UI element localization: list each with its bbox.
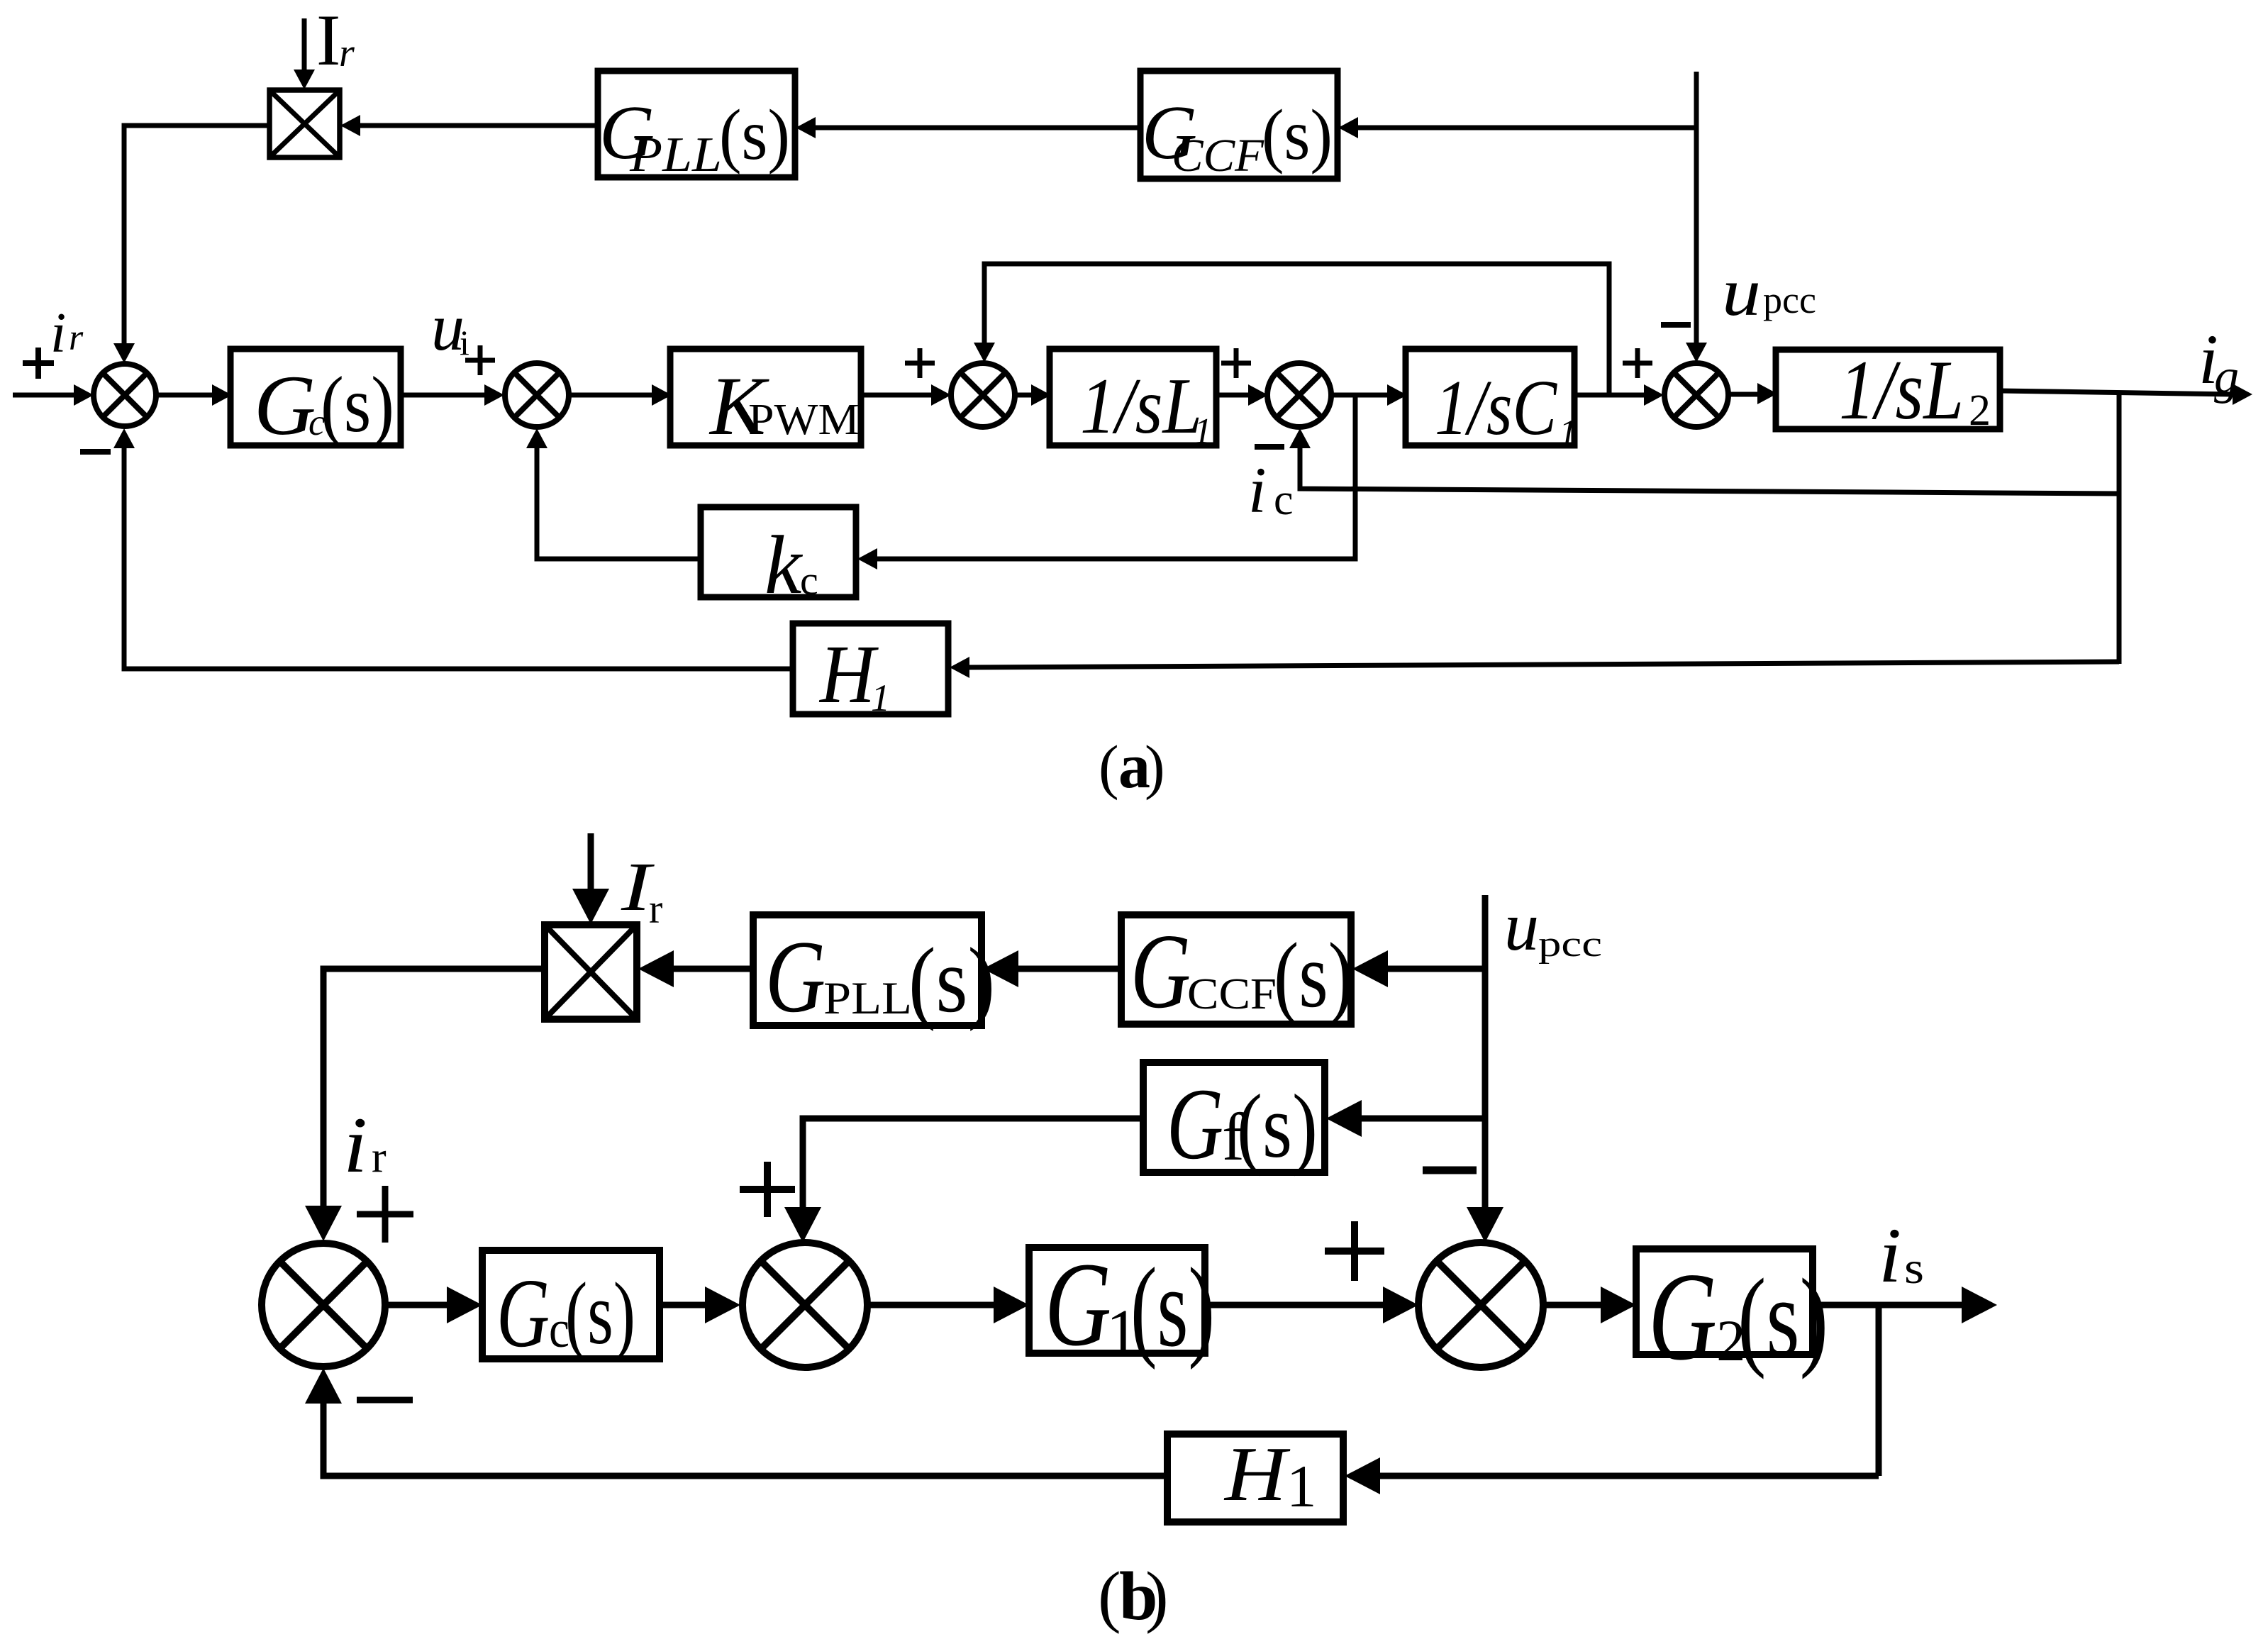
node plus sign at left input of S5a: [1623, 361, 1652, 366]
node plus sign at left input of S3a: [905, 361, 935, 366]
wire S2a to KPWM: [569, 393, 652, 398]
svg-text:(s): (s): [1274, 924, 1353, 1027]
wire S1a to Gc: [156, 393, 214, 398]
summer S5a: [1664, 363, 1728, 427]
wire M1b output left and down into S1b top: [323, 969, 545, 1206]
block Gc(s) (a): [230, 349, 401, 445]
wire Gf output left and down into S2b top: [803, 1118, 1143, 1207]
wire H1 output left and up into S1a bottom: [124, 447, 793, 669]
node minus sign at bottom input of S4a: [1255, 444, 1284, 450]
svg-text:r: r: [372, 1133, 387, 1182]
wire output i_s with tap junction: [1813, 1302, 1962, 1309]
svg-text:1: 1: [1286, 1453, 1317, 1520]
svg-text:i: i: [1248, 454, 1267, 526]
svg-text:(s): (s): [565, 1265, 635, 1363]
wire S3a to 1/sL1: [1016, 393, 1032, 398]
svg-text:G: G: [1045, 1238, 1111, 1371]
block kc: [701, 507, 856, 597]
wire inner capacitor-voltage feedback into S3a top: [984, 264, 1609, 395]
wire GCCF to GPLL (b): [1017, 966, 1121, 972]
wire KPWM to summer S3a: [861, 393, 932, 398]
wire H1 feedback from output tap into H1 box (a): [968, 662, 2119, 667]
wire GPLL to M1a: [358, 123, 598, 128]
svg-text:2: 2: [1969, 387, 1991, 435]
node plus sign at left input of S2a: [465, 358, 495, 363]
wire GCCF to GPLL: [813, 126, 1140, 130]
summer S3a: [951, 363, 1015, 427]
svg-text:CCF: CCF: [1172, 130, 1264, 182]
block H1 (a): [793, 623, 948, 714]
wire u_pcc tap to Gf: [1362, 1116, 1485, 1122]
wire G1 to summer S3b: [1205, 1302, 1383, 1309]
svg-text:1/sC: 1/sC: [1435, 365, 1558, 452]
svg-text:(s): (s): [1130, 1244, 1215, 1370]
wire u_pcc input into S5a top: [1694, 72, 1699, 345]
svg-text:(s): (s): [1738, 1256, 1828, 1380]
node plus sign at top input of S1b: [357, 1211, 413, 1218]
svg-text:CCF: CCF: [1187, 970, 1277, 1018]
svg-text:H: H: [818, 628, 879, 721]
node minus sign at bottom input of S1b: [357, 1397, 413, 1404]
wire kc output up into S2a bottom: [537, 447, 701, 559]
block 1/sL1: [1050, 349, 1216, 445]
wire S5a to 1/sL2: [1728, 392, 1758, 397]
node plus sign at left input of S4a: [1221, 361, 1251, 366]
svg-text:H: H: [1223, 1431, 1291, 1517]
wire Gc to summer S2a: [401, 393, 485, 398]
block G1(s): [1029, 1248, 1205, 1353]
multiplier M1a (box with X): [269, 90, 340, 157]
block Gc(s) (b): [482, 1250, 660, 1359]
svg-text:i: i: [1879, 1212, 1901, 1299]
svg-text:u: u: [1504, 889, 1539, 965]
svg-text:1/sL: 1/sL: [1080, 362, 1202, 450]
svg-text:(: (: [1098, 1558, 1121, 1635]
summer S2a: [505, 363, 569, 427]
block GPLL(s) (a): [598, 71, 795, 177]
svg-text:g: g: [2214, 350, 2239, 404]
wire kc tap from main line into kc box: [876, 395, 1355, 559]
block G2(s): [1636, 1249, 1813, 1355]
svg-text:(: (: [1099, 733, 1119, 801]
wire H1 feedback right segment into H1 box (b): [1380, 1473, 1879, 1479]
svg-text:): ): [1145, 1558, 1169, 1635]
svg-text:): ): [1145, 733, 1165, 801]
wire i_c feedback from output tap into S4a bottom: [1300, 446, 2119, 494]
wire I_r input into M1a top: [302, 18, 307, 72]
svg-text:(s): (s): [1262, 95, 1333, 175]
node minus sign at top input of S3b: [1423, 1167, 1477, 1174]
node plus sign at left input of S3b: [1325, 1248, 1384, 1255]
svg-text:G: G: [1167, 1068, 1223, 1181]
block GCCF(s) (a): [1140, 71, 1338, 179]
block H1 (b): [1167, 1434, 1343, 1522]
wire output tap down vertical (a): [2117, 392, 2122, 664]
svg-text:i: i: [460, 323, 469, 362]
wire output i_g with tap junction: [2000, 391, 2233, 394]
svg-text:G: G: [254, 358, 316, 453]
svg-text:PWM: PWM: [748, 396, 860, 444]
svg-text:(s): (s): [908, 929, 995, 1032]
svg-text:c: c: [1274, 476, 1294, 524]
wire S3b to G2: [1543, 1302, 1601, 1309]
summer S2b: [743, 1243, 867, 1367]
block 1/sL2: [1776, 350, 2000, 429]
node plus sign at reference input of S1a: [23, 360, 54, 366]
node minus sign at top input of S5a: [1661, 322, 1691, 328]
svg-text:G: G: [1130, 911, 1191, 1030]
wire 1/sL1 to summer S4a: [1216, 393, 1249, 398]
svg-text:r: r: [339, 31, 355, 75]
summer S3b: [1418, 1243, 1543, 1367]
block GCCF(s) (b): [1121, 915, 1351, 1024]
svg-text:1: 1: [1194, 411, 1212, 452]
wire output tap down vertical (b): [1876, 1305, 1882, 1476]
svg-text:i: i: [50, 302, 66, 365]
svg-text:(s): (s): [321, 361, 394, 449]
summer S1a: [94, 364, 156, 426]
svg-text:c: c: [800, 557, 818, 604]
wire multiplier M1a output into S1a top: [124, 126, 269, 345]
svg-text:PLL: PLL: [823, 973, 912, 1024]
wire u_pcc tap to GCCF (b): [1386, 966, 1485, 972]
wire 1/sC1 to summer S5a: [1574, 393, 1645, 398]
wire input reference into summer S1a: [13, 393, 75, 398]
svg-text:G: G: [1648, 1246, 1717, 1387]
wire S2b to G1: [867, 1302, 994, 1309]
wire I_r input into M1b top: [588, 833, 594, 890]
wire H1 output left and up into S1b bottom: [323, 1404, 1167, 1476]
svg-text:k: k: [765, 518, 804, 611]
block KPWM: [670, 349, 861, 445]
svg-text:PLL: PLL: [629, 128, 722, 182]
wire u_pcc tap to GCCF: [1356, 126, 1696, 130]
node plus sign at top input of S2b: [740, 1186, 795, 1193]
svg-text:u: u: [1722, 254, 1761, 330]
svg-text:1: 1: [1559, 413, 1577, 453]
svg-text:s: s: [1904, 1243, 1924, 1293]
node minus sign at feedback input of S1a: [80, 449, 111, 455]
svg-text:G: G: [496, 1259, 550, 1368]
svg-text:r: r: [69, 318, 84, 358]
multiplier M1b (box with X): [545, 925, 637, 1019]
wire GPLL to M1b: [674, 966, 753, 972]
svg-text:1: 1: [871, 677, 890, 719]
svg-text:pcc: pcc: [1763, 279, 1816, 321]
svg-text:I: I: [316, 0, 340, 81]
svg-text:pcc: pcc: [1538, 924, 1602, 965]
block GPLL(s) (b): [753, 915, 982, 1026]
svg-text:i: i: [343, 1101, 367, 1189]
svg-text:G: G: [765, 919, 826, 1034]
wire u_pcc input vertical into S3b top: [1482, 895, 1489, 1207]
wire S1b to Gc (b): [385, 1302, 447, 1309]
svg-text:(s): (s): [1237, 1076, 1318, 1177]
summer S4a: [1267, 363, 1331, 427]
block 1/sC1: [1406, 349, 1574, 445]
wire S4a to 1/sC1: [1331, 393, 1388, 398]
svg-text:(s): (s): [719, 95, 790, 175]
wire Gc to summer S2b: [660, 1302, 705, 1309]
svg-text:1/sL: 1/sL: [1839, 343, 1964, 437]
block Gf(s): [1143, 1062, 1325, 1172]
summer S1b: [262, 1243, 385, 1367]
svg-text:r: r: [649, 886, 662, 932]
